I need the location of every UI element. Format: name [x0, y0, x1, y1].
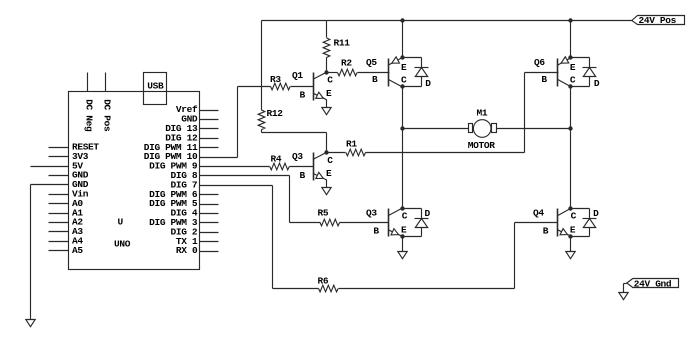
wire R3 to Q1 base [291, 86, 314, 88]
flag 24V Gnd [627, 279, 679, 288]
svg-text:E: E [401, 62, 407, 73]
svg-text:R2: R2 [341, 58, 352, 69]
pin A0 (left 7) [49, 203, 69, 205]
wire DIG 7 riser to R6 [272, 186, 274, 289]
transistor Q6 emitter arrow [561, 57, 569, 63]
pin DIG 7 (right 9) [200, 185, 273, 187]
USB connector box [144, 73, 167, 105]
wire riser to Q4 base [514, 223, 516, 289]
transistor Q5 collector (bottom) [388, 79, 402, 87]
svg-text:DC Pos: DC Pos [102, 99, 113, 132]
node motor left junction [400, 126, 404, 130]
svg-text:UNO: UNO [114, 239, 131, 250]
wire motor left [403, 128, 469, 130]
pin A5 (left 12) [49, 250, 69, 252]
wire right rail Q6 collector to Q4 collector [570, 87, 572, 209]
svg-text:RX 0: RX 0 [176, 245, 198, 256]
pin A3 (left 10) [49, 231, 69, 233]
wire Q1 emitter to ground [326, 100, 328, 108]
svg-text:Q3: Q3 [292, 151, 303, 162]
wire riser to Q6 base [524, 73, 526, 153]
transistor Q1 collector [313, 72, 327, 79]
svg-text:B: B [543, 225, 549, 236]
node Q3 collector junction [324, 150, 328, 154]
resistor R5 [320, 219, 340, 226]
svg-text:C: C [401, 74, 407, 85]
node Q3 collector junction [400, 206, 404, 210]
svg-text:USB: USB [147, 81, 164, 92]
pin 5V (left 3) [31, 166, 69, 168]
svg-text:E: E [401, 225, 407, 236]
pin DIG PWM 10 (right 6) [200, 157, 238, 159]
transistor Q1 base bar [313, 73, 315, 101]
transistor Q3 emitter (bottom) [388, 230, 402, 237]
transistor Q3 collector [313, 152, 327, 159]
svg-text:E: E [570, 225, 576, 236]
resistor R4 [270, 163, 290, 170]
wire R11 drop [326, 21, 328, 38]
node junction 24V / Q6 rail [568, 18, 572, 22]
svg-text:B: B [300, 90, 306, 101]
pin DC Pos (top pin 2) [105, 73, 107, 92]
resistor R11 [323, 38, 330, 58]
wire Q3 emitter to diode [403, 236, 422, 238]
wire Q4 emitter to diode [571, 236, 590, 238]
pin TX 1 (right 15) [200, 241, 219, 243]
wire R2 row (Q1 collector to Q5 base) [327, 72, 338, 74]
transistor Q4 collector (top) [557, 208, 571, 216]
ground (24V Gnd) [619, 293, 628, 300]
ground below Q3 [322, 188, 331, 195]
node Q6 collector junction [568, 84, 572, 88]
wire Q6 collector to diode [571, 86, 590, 88]
wire R6 to Q4 base riser [339, 288, 515, 290]
pin DIG 2 (right 14) [200, 232, 219, 234]
pin DIG PWM 11 (right 5) [200, 147, 219, 149]
svg-text:R5: R5 [318, 207, 329, 218]
pin DIG PWM 3 (right 13) [200, 222, 219, 224]
wire R5 row [290, 222, 321, 224]
pin A4 (left 11) [49, 241, 69, 243]
node junction 24V / Q5 rail [400, 18, 404, 22]
wire R4 to Q3 base [290, 166, 314, 168]
transistor Q6 collector (bottom) [557, 79, 571, 87]
wire 24V Gnd to ground [624, 283, 627, 285]
pin GND (right 2) [200, 119, 219, 121]
flyback diode of Q5 [421, 58, 423, 68]
motor M1 body [473, 120, 491, 138]
flyback diode of Q6 [589, 58, 591, 68]
svg-text:D: D [593, 208, 599, 219]
wire R11 to Q1 collector [326, 58, 328, 73]
ground below Q3 [398, 252, 407, 259]
svg-text:R4: R4 [271, 154, 282, 165]
pin A2 (left 9) [49, 222, 69, 224]
ground below Q1 [322, 108, 331, 115]
pin RESET (left 1) [49, 147, 69, 149]
transistor Q3 base bar [388, 209, 390, 237]
svg-text:B: B [300, 170, 306, 181]
transistor Q5 emitter arrow [392, 57, 400, 63]
svg-text:E: E [326, 168, 332, 179]
wire Q3 emitter to ground [402, 237, 404, 252]
motor M1 right terminal [492, 124, 497, 133]
svg-text:B: B [372, 74, 378, 85]
wire Q3 emitter to ground [326, 180, 328, 188]
resistor R6 [319, 285, 339, 292]
motor M1 left terminal [469, 124, 473, 133]
svg-text:B: B [541, 74, 547, 85]
transistor Q3 emitter [313, 173, 327, 180]
pin DIG 8 (right 8) [200, 175, 290, 177]
pin GND (left 5) [31, 184, 69, 186]
ground (bottom left) [26, 320, 35, 327]
wire Q3 collector to diode [403, 208, 422, 210]
transistor Q6 base bar [557, 59, 559, 87]
node Q1 collector junction [324, 70, 328, 74]
wire motor right [497, 128, 571, 130]
pin Vin (left 6) [49, 194, 69, 196]
transistor Q1 emitter [313, 93, 327, 100]
transistor Q5 base bar [388, 59, 390, 87]
wire rail above Q6 [570, 21, 572, 58]
node Q3 emitter junction [400, 234, 404, 238]
wire rail above Q5 [402, 21, 404, 58]
resistor R3 [271, 83, 291, 90]
wire R1 row (Q3 collector to Q6 base riser) [327, 152, 346, 154]
svg-text:MOTOR: MOTOR [468, 140, 495, 151]
resistor R1 [346, 149, 366, 156]
svg-text:DC Neg: DC Neg [83, 99, 94, 132]
wire left rail Q5 collector to Q3 collector [402, 87, 404, 209]
svg-text:C: C [571, 211, 577, 222]
svg-text:D: D [594, 78, 600, 89]
svg-text:C: C [570, 74, 576, 85]
transistor Q3 collector (top) [388, 208, 402, 216]
svg-text:A5: A5 [72, 245, 83, 256]
svg-text:24V Pos: 24V Pos [639, 15, 677, 26]
svg-text:M1: M1 [477, 108, 488, 119]
svg-text:24V Gnd: 24V Gnd [634, 279, 672, 290]
transistor Q6 emitter (top) [557, 58, 571, 65]
wire GND to ground symbol [30, 185, 32, 320]
wire left drop to R12 [261, 21, 263, 111]
svg-text:C: C [402, 211, 408, 222]
flag 24V Pos [632, 16, 685, 25]
wire +24V top rail [262, 20, 632, 22]
wire Q6 emitter to diode [571, 57, 590, 59]
wire R3 row [238, 86, 271, 88]
wire Q4 emitter to ground [570, 237, 572, 252]
transistor Q4 emitter (bottom) [557, 230, 571, 237]
pin GND (left 4) [49, 175, 69, 177]
pin Vref (right 1) [200, 110, 219, 112]
flyback diode of Q4 [589, 209, 591, 219]
svg-text:Q1: Q1 [292, 70, 303, 81]
IC U Arduino UNO body [69, 92, 200, 270]
wire R2 to Q5 base [358, 72, 390, 74]
wire DIG PWM 10 riser to R3 [237, 87, 239, 158]
svg-text:R11: R11 [334, 38, 351, 49]
transistor Q3 emitter arrow [391, 229, 398, 235]
svg-text:R12: R12 [267, 108, 284, 119]
transistor Q4 base bar [557, 209, 559, 237]
transistor Q4 emitter arrow [560, 229, 567, 235]
pin DIG 4 (right 12) [200, 213, 219, 215]
node motor right junction [568, 126, 572, 130]
resistor R2 [338, 69, 358, 76]
svg-text:E: E [326, 88, 332, 99]
wire R6 row left [273, 288, 319, 290]
svg-text:R6: R6 [318, 275, 329, 286]
transistor Q3 emitter arrow [316, 172, 323, 178]
svg-text:E: E [570, 62, 576, 73]
resistor R12 [258, 110, 265, 130]
svg-text:Q4: Q4 [533, 208, 544, 219]
node Q6 emitter junction [568, 55, 572, 59]
svg-text:C: C [327, 155, 333, 166]
svg-text:Q5: Q5 [366, 57, 377, 68]
svg-text:Q3: Q3 [366, 208, 377, 219]
wire R1 to riser [366, 152, 525, 154]
pin DIG 12 (right 4) [200, 138, 219, 140]
svg-text:U: U [118, 217, 124, 228]
ground below Q4 [566, 252, 575, 259]
svg-text:Q6: Q6 [534, 57, 545, 68]
svg-text:C: C [327, 75, 333, 86]
svg-text:R1: R1 [346, 139, 357, 150]
wire Q5 emitter to diode [403, 57, 422, 59]
wire Q5 collector to diode [403, 86, 422, 88]
node Q4 emitter junction [568, 234, 572, 238]
pin 3V3 (left 2) [49, 156, 69, 158]
pin DIG 13 (right 3) [200, 128, 219, 130]
pin RX 0 (right 16) [200, 251, 219, 253]
svg-text:B: B [373, 225, 379, 236]
transistor Q3 base bar [313, 153, 315, 181]
node Q5 emitter junction [400, 55, 404, 59]
node Q4 collector junction [568, 206, 572, 210]
flyback diode of Q3 [421, 209, 423, 219]
pin DIG PWM 5 (right 11) [200, 204, 219, 206]
svg-text:R3: R3 [270, 74, 281, 85]
wire DIG 8 riser to R5 [289, 176, 291, 223]
wire to Q4 base [515, 222, 558, 224]
node Q5 collector junction [400, 84, 404, 88]
wire DIG PWM 9 to R4 [200, 166, 270, 168]
svg-text:D: D [425, 208, 431, 219]
transistor Q5 emitter (top) [388, 58, 402, 65]
wire R12 bottom elbow [261, 130, 263, 133]
pin DIG PWM 6 (right 10) [200, 194, 219, 196]
pin DC Neg (top pin 1) [87, 73, 89, 92]
transistor Q1 emitter arrow [316, 92, 323, 98]
wire R5 to Q3 power base [340, 222, 389, 224]
svg-text:D: D [425, 78, 431, 89]
wire Q4 collector to diode [571, 208, 590, 210]
pin A1 (left 8) [49, 213, 69, 215]
